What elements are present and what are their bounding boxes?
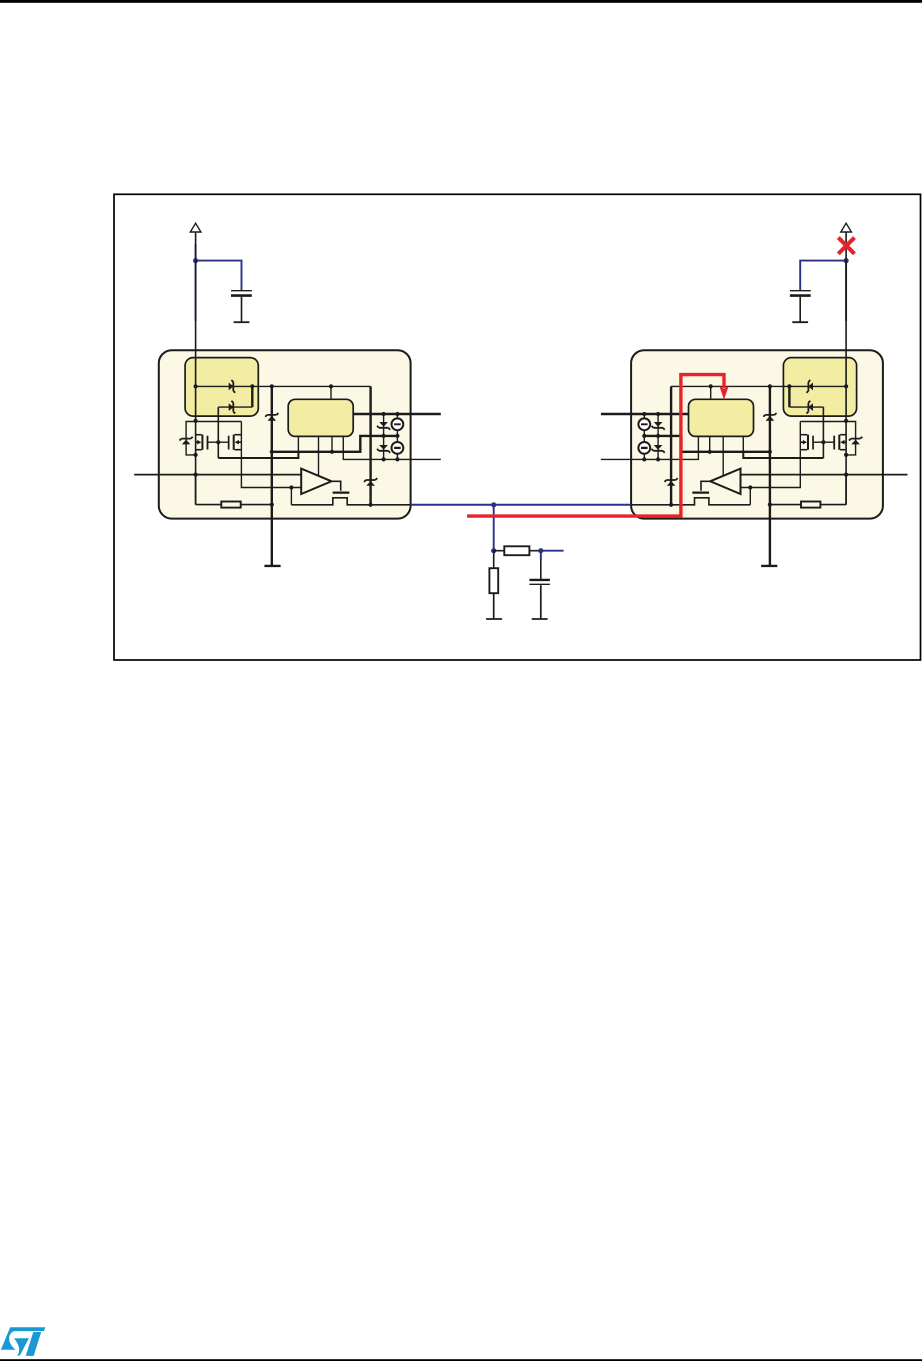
node tap junction (491, 548, 496, 553)
current source U1 I1 (392, 418, 404, 430)
diode U2 ZC1 (654, 422, 663, 427)
diode U2 D1 (808, 383, 813, 391)
transistor U1 M1 (201, 435, 203, 450)
capacitor U2 decoupling (790, 290, 811, 292)
transistor U1 output MOSFET (332, 481, 341, 491)
wire U1 gate feed vertical (217, 407, 219, 458)
diode U1 ZC2 (379, 445, 388, 450)
wire Rg top lead (493, 551, 495, 569)
node U2 VS node (844, 258, 849, 263)
current source U2 I2 (638, 442, 650, 454)
wire U1 bus-side rail (369, 386, 371, 504)
wire U2 feedback drop (749, 488, 751, 505)
wire U2 cell pin 1 (742, 436, 744, 451)
resistor U1 Rt (221, 502, 240, 508)
wire U1 top rail (196, 385, 371, 387)
ground U1 (264, 565, 280, 567)
wire U2 gate feed vertical (822, 407, 824, 458)
U1 supply-protection cell (yellow) (185, 358, 258, 417)
wire U2 output line 1 (thick) (601, 413, 689, 416)
diode U1 ZC1 (379, 422, 388, 427)
resistor R termination (504, 546, 529, 555)
wire U1 VS blue segment (195, 244, 197, 321)
wire U2 top rail (671, 385, 846, 387)
wire U2 bus output (631, 498, 750, 505)
diode U2 Z1 on GND rail (766, 416, 775, 421)
wire Rg bottom lead (493, 593, 495, 619)
wire U2 cell pin 3 (709, 436, 711, 451)
wire U2 bus-side rail (670, 386, 672, 504)
wire U1 cell pin 3 (331, 436, 333, 451)
capacitor Cg to ground (529, 579, 550, 581)
supply arrow U2 (841, 223, 852, 232)
U2 receiver cell (yellow) (689, 399, 754, 436)
diode U1 Z2 on bus-side rail (366, 481, 375, 486)
wire U1 M2 source rail (241, 422, 301, 488)
wire U1 GND rail (271, 386, 273, 566)
wire U2 cell pin 4 (601, 436, 699, 459)
wire U1 TxD input line (134, 474, 301, 476)
supply arrow U1 (190, 223, 201, 232)
transistor U1 M2 (228, 436, 230, 450)
transceiver U2 body (631, 350, 883, 518)
ground U1 capacitor ground bar (234, 321, 250, 323)
diode U1 Z1 on GND rail (268, 416, 277, 421)
wire U2 cell top pin (710, 386, 712, 399)
resistor U2 Rt (801, 502, 820, 508)
wire U2 VS blue segment (845, 262, 847, 321)
U2 supply-protection cell (yellow) (783, 358, 856, 417)
node bus junction (491, 502, 496, 507)
wire U2 GND rail (769, 386, 771, 566)
transceiver U1 body (159, 350, 411, 518)
wire U2 lower diode row (789, 406, 823, 408)
diode U1 D1 (229, 383, 234, 391)
capacitor U1 decoupling (231, 290, 252, 292)
diode U2 D2 (808, 403, 813, 411)
wire U1 gate link (208, 441, 229, 443)
wire U1 cell top pin (330, 386, 332, 399)
wire U2 cell pin 2 (722, 436, 724, 476)
wire U1 VS to capacitor (196, 261, 242, 290)
ST logo (1, 1327, 45, 1356)
wire U1 bus output (291, 498, 410, 505)
wire U2 VS to capacitor (800, 261, 846, 290)
wire U2 clamp ladder (657, 414, 659, 459)
wire Cg top lead (540, 551, 542, 579)
op-amp U1 driver (301, 469, 331, 494)
op-amp U2 driver (710, 469, 740, 494)
wire U1 current source chain (396, 414, 398, 419)
wire stub to right (blue) (541, 550, 564, 552)
ground U2 capacitor ground bar (792, 321, 808, 323)
wire U1 cell pin 4 (343, 436, 441, 459)
page top rule (0, 0, 922, 3)
wire R-C link (494, 550, 505, 552)
wire U2 cell corner drop (788, 386, 790, 407)
transistor U2 M2 (812, 436, 814, 450)
wire U1 lower diode row (218, 406, 252, 408)
wire U1 Rt wire (195, 475, 197, 505)
diode U2 ZC2 (654, 445, 663, 450)
current source U1 I2 (392, 442, 404, 454)
wire U2 drain rail (800, 421, 846, 423)
wire U2 gate link (813, 441, 834, 443)
diode U2 Z2 on bus-side rail (667, 481, 676, 486)
wire U2 VS rail vertical (845, 232, 847, 505)
diode U1 D2 (229, 403, 234, 411)
page bottom rule (0, 1359, 922, 1361)
wire U2 Rt wire (845, 475, 847, 505)
wire U2 TxD input line (741, 474, 908, 476)
node U1 VS node (193, 258, 198, 263)
resistor Rg to ground (489, 568, 498, 593)
red reverse current path (467, 375, 724, 516)
wire U1 drain rail (196, 421, 242, 423)
wire U1 cell pin 1 (297, 436, 299, 451)
wire U2 M2 source rail (741, 422, 801, 488)
wire U1 gate feed elbow (218, 452, 298, 458)
wire U2 gate feed elbow (743, 452, 823, 458)
ground Cg ground bar (532, 618, 548, 620)
U1 receiver cell (yellow) (288, 399, 353, 436)
diode U2 body diode branch (846, 422, 856, 455)
wire U1 clamp ladder (383, 414, 385, 459)
wire U1 cell pin 2 (318, 436, 320, 476)
current source U2 I1 (638, 418, 650, 430)
wire U1 cell output bus (thick) (272, 436, 398, 452)
ground Rg ground bar (486, 618, 502, 620)
loss-of-supply X mark (838, 238, 854, 254)
node U1 junction dots (194, 384, 198, 388)
node U2 junction dots (844, 384, 848, 388)
wire U2 current source chain (643, 414, 645, 419)
ground U2 (761, 565, 777, 567)
wire U2 cell output bus (thick) (644, 436, 770, 452)
red arrowhead (719, 386, 729, 400)
wire U1 cell corner drop (251, 386, 253, 407)
diode U1 body diode branch (186, 422, 196, 455)
figure frame (114, 194, 921, 660)
node R-C node (538, 548, 543, 553)
wire U1 feedback drop (290, 488, 292, 505)
wire bus tap vertical (493, 505, 495, 551)
wire bus line (blue) (411, 504, 631, 506)
transistor U2 M1 (838, 435, 840, 450)
wire U1 VS rail vertical (195, 232, 197, 505)
transistor U2 output MOSFET (701, 481, 710, 491)
wire U1 output line 1 (thick) (353, 413, 441, 416)
